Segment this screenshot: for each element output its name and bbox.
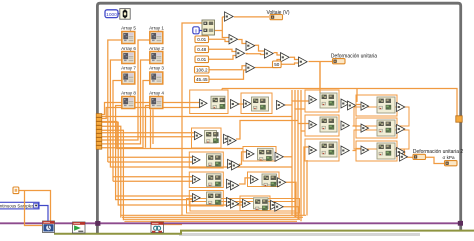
svg-text:0.48: 0.48 bbox=[197, 47, 206, 52]
svg-text:0.01: 0.01 bbox=[197, 37, 206, 42]
svg-text:45.45: 45.45 bbox=[196, 77, 208, 82]
svg-text:0: 0 bbox=[195, 28, 198, 33]
svg-text:Array 1: Array 1 bbox=[149, 26, 164, 31]
svg-text:σ kPa: σ kPa bbox=[442, 155, 454, 160]
svg-text:108.2: 108.2 bbox=[196, 68, 208, 73]
svg-text:ntinuous Samples: ntinuous Samples bbox=[0, 204, 34, 209]
svg-text:Array 8: Array 8 bbox=[121, 90, 136, 95]
svg-text:Array 2: Array 2 bbox=[149, 46, 164, 51]
svg-text:Array 6: Array 6 bbox=[121, 46, 136, 51]
svg-text:1000: 1000 bbox=[106, 12, 117, 18]
svg-text:50: 50 bbox=[274, 62, 280, 67]
svg-text:0.01: 0.01 bbox=[197, 57, 206, 62]
svg-text:Array 3: Array 3 bbox=[149, 65, 164, 70]
svg-text:Array 5: Array 5 bbox=[121, 26, 136, 31]
svg-text:Array 4: Array 4 bbox=[149, 90, 164, 95]
svg-text:Array 7: Array 7 bbox=[121, 65, 136, 70]
